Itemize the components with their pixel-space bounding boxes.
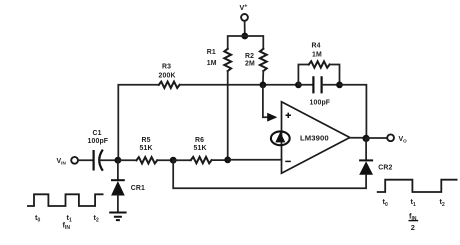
wire CR2 feedback to node B bbox=[173, 160, 366, 188]
input waveform fIN bbox=[27, 194, 104, 206]
wire CR1 to ground bbox=[117, 196, 119, 212]
svg-text:R6: R6 bbox=[195, 137, 204, 144]
resistor R6 bbox=[191, 157, 212, 163]
label fIN bbox=[63, 220, 71, 231]
wire R4 loop left bbox=[298, 65, 308, 85]
terminal VO bbox=[387, 134, 394, 141]
wire R2 bottom lead bbox=[262, 71, 264, 85]
wire output to VO terminal bbox=[366, 137, 387, 139]
svg-text:R2: R2 bbox=[245, 53, 254, 60]
label VIN bbox=[57, 158, 67, 166]
svg-text:R3: R3 bbox=[162, 64, 171, 71]
label R5 51K bbox=[140, 137, 153, 152]
diode CR2 bbox=[359, 160, 373, 174]
label V+ bbox=[240, 3, 248, 12]
resistor R2 bbox=[260, 49, 267, 71]
svg-text:2M: 2M bbox=[245, 61, 255, 68]
diode CR1 bbox=[111, 180, 125, 195]
pin + symbol bbox=[286, 113, 292, 118]
op-amp U1 LM3900 bbox=[282, 102, 350, 173]
wire R1 bottom lead to node C bbox=[227, 71, 229, 160]
ground bbox=[109, 213, 126, 221]
svg-text:C1: C1 bbox=[93, 130, 102, 137]
wire node A to CR1 bbox=[117, 160, 119, 180]
label CR2 bbox=[378, 165, 392, 172]
wire cap C2 right lead bbox=[322, 84, 340, 86]
label R4 1M bbox=[312, 43, 322, 59]
wire R4 loop right bbox=[330, 65, 340, 85]
svg-text:CR1: CR1 bbox=[131, 185, 145, 192]
svg-text:200K: 200K bbox=[159, 73, 176, 80]
label t0 (output) bbox=[383, 197, 388, 208]
svg-text:CR2: CR2 bbox=[378, 165, 392, 172]
label R2 2M bbox=[245, 53, 255, 68]
wire node A to R5 bbox=[118, 159, 136, 161]
resistor R5 bbox=[136, 157, 157, 163]
resistor R1 bbox=[224, 49, 231, 71]
svg-text:51K: 51K bbox=[194, 145, 207, 152]
label R6 51K bbox=[194, 137, 207, 152]
wire op-amp output bbox=[350, 137, 366, 139]
svg-text:100pF: 100pF bbox=[310, 100, 331, 107]
label R3 200K bbox=[159, 64, 176, 80]
wire - input bbox=[228, 159, 282, 161]
terminal V+ bbox=[241, 14, 248, 21]
svg-text:1M: 1M bbox=[207, 60, 217, 67]
svg-text:2: 2 bbox=[411, 223, 415, 232]
label R1 1M bbox=[207, 49, 217, 67]
pin - symbol bbox=[285, 160, 291, 162]
svg-text:LM3900: LM3900 bbox=[300, 133, 329, 142]
svg-text:1M: 1M bbox=[312, 52, 322, 59]
current source symbol (Norton mirror) bbox=[271, 131, 290, 145]
node C bbox=[224, 157, 231, 164]
wire R3 left riser from node A bbox=[118, 85, 159, 160]
label LM3900 bbox=[300, 133, 329, 142]
label t0 (input) bbox=[35, 213, 40, 224]
wire + input feed bbox=[263, 85, 270, 117]
capacitor C2 100pF plates bbox=[313, 76, 321, 93]
wire VIN to C1 bbox=[78, 159, 93, 161]
wire V+ lead bbox=[244, 21, 246, 36]
svg-text:R4: R4 bbox=[312, 43, 321, 50]
wire node B to R6 bbox=[173, 159, 191, 161]
label t1 (output) bbox=[411, 197, 416, 208]
wire C1 to node A bbox=[99, 159, 118, 161]
svg-text:R5: R5 bbox=[142, 137, 151, 144]
output waveform fIN/2 bbox=[377, 180, 458, 192]
label 100pF (feedback cap) bbox=[310, 100, 331, 107]
node R4 left bbox=[295, 82, 302, 89]
terminal VIN bbox=[71, 157, 78, 164]
svg-text:R1: R1 bbox=[207, 49, 216, 56]
svg-text:51K: 51K bbox=[140, 145, 153, 152]
svg-text:100pF: 100pF bbox=[88, 138, 109, 145]
label fIN/2 bbox=[409, 211, 419, 232]
node V+ junction bbox=[241, 33, 248, 40]
wire R3 to + input node (crosses R1 lead) bbox=[180, 84, 299, 86]
label C1 100pF bbox=[88, 130, 109, 145]
node R4 right bbox=[336, 82, 343, 89]
node B bbox=[170, 157, 177, 164]
label VO bbox=[399, 136, 408, 144]
resistor R4 bbox=[309, 61, 330, 67]
node R2/+input junction bbox=[260, 82, 267, 89]
capacitor C1 bbox=[94, 150, 103, 171]
wire R5 to node B bbox=[157, 159, 173, 161]
node output bbox=[363, 135, 370, 142]
wire output to CR2 bbox=[365, 138, 367, 160]
label t2 (input) bbox=[94, 213, 99, 224]
resistor R3 bbox=[159, 82, 180, 88]
wire feedback to output node bbox=[340, 85, 367, 139]
label t2 (output) bbox=[440, 197, 445, 208]
wire top rail to R1/R2 bbox=[228, 36, 264, 49]
node A bbox=[115, 157, 122, 164]
label CR1 bbox=[131, 185, 145, 192]
wire R6 to node C bbox=[212, 159, 228, 161]
wire cap C2 left lead bbox=[298, 84, 313, 86]
label t1 (input) bbox=[67, 213, 72, 224]
arrowhead + input bbox=[267, 113, 277, 122]
